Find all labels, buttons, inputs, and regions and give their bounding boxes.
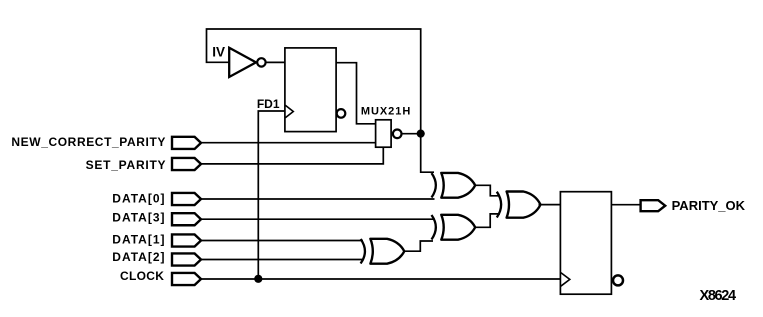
svg-text:DATA[3]: DATA[3] (112, 211, 165, 225)
junction node on CLOCK line (254, 275, 262, 283)
xor gate X2 (DATA[3] ^ X3 out) input arc (432, 215, 436, 240)
input pin CLOCK (172, 273, 201, 285)
wire DATA[3] to XOR2 upper input (201, 218, 435, 220)
svg-text:CLOCK: CLOCK (120, 269, 164, 283)
input pin DATA[2] (172, 253, 201, 265)
flip-flop U2 inverted output bubble QN (337, 109, 346, 118)
xor gate X3 (DATA[1] ^ DATA[2]) input arc (361, 239, 365, 264)
wire X1 output to XOR4 upper input (474, 185, 500, 196)
wire U4 Q output to PARITY_OK pin (611, 204, 639, 206)
svg-text:DATA[2]: DATA[2] (112, 250, 165, 264)
wire FD1 Q output to MUX21H input A (336, 63, 376, 124)
wire CLOCK to right flip-flop clock pin (201, 278, 560, 280)
svg-text:MUX21H: MUX21H (361, 106, 411, 118)
svg-text:DATA[0]: DATA[0] (112, 192, 165, 206)
wire DATA[0] to XOR1 lower input (201, 198, 435, 200)
wire feedback loop (MUX output up, across top, down to inverter IV input) (207, 29, 435, 172)
wire clock branch to FD1 clock pin (258, 111, 285, 279)
svg-text:IV: IV (212, 44, 225, 59)
flip-flop U2 clock chevron pin C (285, 105, 293, 118)
flip-flop U2 FD1 body (285, 48, 336, 132)
flip-flop U4 inverted output bubble QN (613, 275, 623, 285)
svg-text:PARITY_OK: PARITY_OK (672, 198, 746, 213)
input pin NEW_CORRECT_PARITY (172, 137, 201, 149)
wire MUX21H output to feedback node (402, 133, 421, 135)
xor gate X4 (final parity) input arc (497, 192, 501, 218)
flip-flop U4 clock chevron pin C (561, 273, 570, 287)
xor gate X2 body (441, 215, 475, 240)
input pin DATA[3] (172, 213, 201, 225)
wire IV output to FD1 D input (266, 61, 285, 63)
xor gate X1 body (441, 173, 475, 198)
svg-text:DATA[1]: DATA[1] (112, 233, 165, 247)
flip-flop U4 (output register) body (560, 192, 611, 295)
svg-text:FD1: FD1 (257, 97, 280, 111)
inverter U1 IV (229, 48, 265, 77)
output pin PARITY_OK (641, 200, 666, 211)
input pin DATA[0] (172, 193, 201, 205)
junction node at MUX output / feedback (417, 130, 425, 138)
wire X4 output to right flip-flop D input (539, 204, 561, 206)
svg-text:NEW_CORRECT_PARITY: NEW_CORRECT_PARITY (11, 135, 166, 149)
wire X2 output to XOR4 lower input (474, 214, 500, 227)
wire DATA[2] to XOR3 lower input (201, 259, 364, 261)
wire DATA[1] to XOR3 upper input (201, 240, 363, 242)
xor gate X3 body (370, 239, 404, 264)
xor gate X4 body (507, 192, 541, 218)
xor gate X1 (MUX out ^ DATA[0]) input arc (432, 173, 436, 197)
input pin SET_PARITY (172, 158, 201, 170)
mux U3 MUX21H body (376, 120, 392, 147)
svg-text:X8624: X8624 (700, 288, 736, 304)
wire NEW_CORRECT_PARITY to MUX21H input B (201, 142, 376, 144)
wire SET_PARITY to MUX21H select pin (201, 147, 383, 164)
input pin DATA[1] (172, 234, 201, 246)
mux U3 output bubble (393, 130, 402, 139)
wire X3 output to XOR2 lower input (403, 241, 433, 251)
svg-text:SET_PARITY: SET_PARITY (86, 158, 167, 172)
